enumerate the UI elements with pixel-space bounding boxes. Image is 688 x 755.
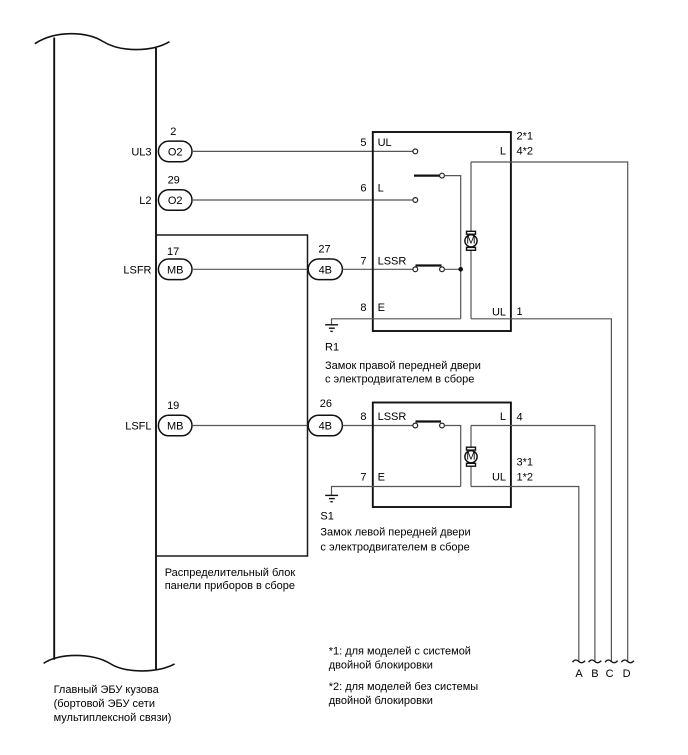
svg-text:2*1: 2*1 (517, 131, 534, 143)
R1 motor line (470, 162, 472, 319)
svg-text:L: L (378, 183, 384, 195)
svg-text:C: C (606, 668, 614, 680)
svg-text:8: 8 (360, 411, 366, 423)
svg-text:Распределительный блок: Распределительный блок (165, 567, 296, 579)
door lock R1 box (373, 132, 511, 331)
svg-text:B: B (591, 668, 598, 680)
svg-text:5: 5 (360, 137, 366, 149)
svg-text:D: D (623, 668, 631, 680)
connector MB (LSFL) (158, 415, 192, 436)
ECU bus bottom break wave (44, 655, 175, 670)
svg-text:L: L (500, 146, 506, 158)
door lock S1 box (373, 403, 511, 508)
S1 LSSR switch contact a (413, 423, 418, 428)
svg-text:1*2: 1*2 (517, 472, 534, 484)
svg-text:*1: для моделей с системой: *1: для моделей с системой (329, 646, 471, 658)
R1 pin 6 contact (413, 198, 418, 203)
wire LSSR contact to common (444, 268, 460, 270)
S1 E wire to ground (332, 487, 461, 496)
svg-text:мультиплексной связи): мультиплексной связи) (54, 712, 172, 724)
svg-text:двойной блокировки: двойной блокировки (329, 695, 433, 707)
R1 LSSR switch contact b (440, 267, 445, 272)
svg-text:L2: L2 (139, 195, 151, 207)
connector MB (LSFR) (158, 259, 192, 280)
junction block box (Распределительный блок панели приборов) (156, 235, 308, 556)
connector 4B (LSFL) (308, 415, 342, 436)
R1 switch arm contact (440, 173, 445, 178)
svg-text:O2: O2 (168, 195, 183, 207)
connector O2 (UL3) (158, 141, 192, 162)
svg-text:UL: UL (492, 472, 506, 484)
wire R1 L to node D (471, 162, 628, 661)
svg-text:17: 17 (167, 246, 179, 258)
svg-text:7: 7 (360, 472, 366, 484)
R1 LSSR switch blade (416, 264, 442, 266)
svg-text:*2: для моделей без системы: *2: для моделей без системы (329, 681, 479, 693)
svg-text:LSSR: LSSR (378, 411, 407, 423)
ground (R1) (325, 325, 338, 332)
svg-text:E: E (378, 472, 385, 484)
wire 4B to S1 pin 8 (342, 425, 413, 427)
S1 LSSR switch contact b (440, 423, 445, 428)
wire UL3 to R1 pin 5 (192, 150, 413, 152)
motor M2 (S1) (465, 447, 477, 466)
svg-text:LSFL: LSFL (125, 421, 151, 433)
svg-text:M: M (466, 235, 475, 247)
svg-text:4: 4 (517, 412, 523, 424)
wire LSSR contact to common (S1) (444, 426, 460, 487)
motor M1 (R1) (465, 231, 477, 250)
svg-text:M: M (466, 451, 475, 463)
node C break symbol (605, 660, 618, 663)
svg-text:19: 19 (167, 400, 179, 412)
svg-text:4B: 4B (319, 264, 332, 276)
wire R1 UL to node C (471, 319, 611, 661)
svg-text:двойной блокировки: двойной блокировки (329, 660, 433, 672)
ECU bus left edge (Главный ЭБУ кузова) (53, 38, 55, 660)
svg-text:панели приборов в сборе: панели приборов в сборе (165, 580, 295, 592)
svg-text:(бортовой ЭБУ сети: (бортовой ЭБУ сети (54, 698, 155, 710)
svg-text:A: A (575, 668, 583, 680)
S1 LSSR switch blade (416, 420, 442, 422)
connector O2 (L2) (158, 190, 192, 211)
junction dot on common line (458, 267, 463, 272)
wire switch arm to common (444, 176, 460, 319)
svg-text:4B: 4B (319, 421, 332, 433)
R1 switch arm (UL/L selector) (414, 175, 440, 177)
svg-text:8: 8 (360, 302, 366, 314)
svg-text:Замок правой передней двери: Замок правой передней двери (325, 360, 481, 372)
svg-text:7: 7 (360, 256, 366, 268)
svg-text:с электродвигателем в сборе: с электродвигателем в сборе (325, 374, 474, 386)
wire S1 UL to node A (471, 487, 579, 662)
svg-text:MB: MB (167, 421, 184, 433)
svg-text:29: 29 (168, 175, 180, 187)
svg-text:UL3: UL3 (131, 146, 151, 158)
wire MB to 4B (LSFR) (192, 268, 309, 270)
node B break symbol (589, 660, 602, 663)
connector 4B (LSFR) (308, 259, 342, 280)
svg-text:O2: O2 (168, 146, 183, 158)
node D break symbol (621, 660, 634, 663)
ECU bus right edge (155, 48, 157, 670)
svg-text:3*1: 3*1 (517, 457, 534, 469)
svg-text:S1: S1 (320, 511, 333, 523)
wire MB to 4B (LSFL) (192, 425, 309, 427)
svg-text:1: 1 (517, 306, 523, 318)
ground (S1) (325, 495, 338, 501)
node A break symbol (573, 660, 586, 663)
svg-text:Замок левой передней двери: Замок левой передней двери (320, 527, 470, 539)
svg-text:UL: UL (378, 137, 392, 149)
svg-text:27: 27 (318, 244, 330, 256)
svg-text:LSSR: LSSR (378, 256, 407, 268)
wire L2 to R1 pin 6 (192, 199, 413, 201)
svg-text:MB: MB (167, 264, 184, 276)
svg-text:R1: R1 (325, 342, 339, 354)
svg-text:4*2: 4*2 (517, 146, 534, 158)
svg-text:E: E (378, 302, 385, 314)
svg-text:L: L (500, 411, 506, 423)
wire S1 L to node B (471, 426, 595, 662)
svg-text:6: 6 (360, 183, 366, 195)
svg-text:с электродвигателем в сборе: с электродвигателем в сборе (320, 542, 469, 554)
R1 pin 5 contact (413, 149, 418, 154)
ECU bus top break wave (35, 34, 170, 50)
R1 LSSR switch contact a (413, 267, 418, 272)
S1 motor line (470, 426, 472, 487)
svg-text:2: 2 (170, 126, 176, 138)
svg-text:26: 26 (320, 398, 332, 410)
R1 E wire to ground (332, 319, 461, 325)
svg-text:Главный ЭБУ кузова: Главный ЭБУ кузова (54, 684, 160, 696)
svg-text:LSFR: LSFR (123, 264, 151, 276)
svg-text:UL: UL (492, 307, 506, 319)
wire 4B to R1 pin 7 (342, 268, 413, 270)
